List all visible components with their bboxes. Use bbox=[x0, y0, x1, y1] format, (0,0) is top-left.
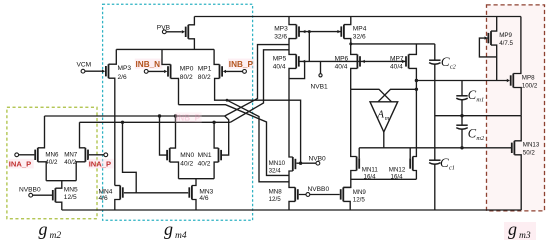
label MN7 40/2 bbox=[64, 152, 78, 166]
svg-text:40/2: 40/2 bbox=[45, 159, 58, 166]
wire MP4 source up bbox=[344, 17, 351, 25]
wire MN9 source to ground bbox=[343, 201, 350, 210]
junction MP1 drain branch bbox=[226, 99, 229, 102]
wire MP6 source up bbox=[351, 44, 358, 55]
svg-text:MN0: MN0 bbox=[180, 152, 194, 159]
wire Cm1 top stem bbox=[461, 81, 463, 96]
svg-text:NVB0: NVB0 bbox=[309, 155, 327, 162]
wire MP3b-MP4 gate wire bbox=[299, 31, 342, 33]
label MN1 40/2 bbox=[198, 152, 212, 167]
svg-text:g: g bbox=[508, 219, 517, 239]
label MP6 40/4 bbox=[335, 55, 349, 70]
svg-text:MN13: MN13 bbox=[523, 141, 540, 148]
svg-text:C: C bbox=[440, 155, 449, 170]
wire Cm2 top stem bbox=[461, 116, 463, 126]
junction nodeB on MP7 column bbox=[415, 88, 418, 91]
junction MN0 gate on H2 bbox=[158, 114, 161, 117]
wire H1 (MP0 drain) to crossing bbox=[179, 105, 290, 176]
wire MP8 drain to output bbox=[513, 88, 521, 116]
svg-text:INB_P: INB_P bbox=[176, 114, 201, 123]
transistor MN11 16/4 bbox=[357, 157, 360, 171]
label gm3 bbox=[504, 219, 536, 241]
wire MP5 drain diode dogleg bbox=[289, 61, 305, 78]
svg-text:MN8: MN8 bbox=[269, 188, 283, 195]
label INB_P ghost bbox=[175, 112, 202, 122]
svg-text:m2: m2 bbox=[50, 231, 62, 241]
transistor MP5 40/4 bbox=[296, 54, 305, 68]
svg-text:MP9: MP9 bbox=[499, 32, 512, 39]
gm4 stage boundary (cyan dashed box) bbox=[103, 4, 253, 220]
terminal PVB bbox=[162, 30, 166, 34]
transistor MP1 80/2 bbox=[220, 64, 227, 78]
label MN9 12/5 bbox=[353, 189, 367, 204]
transistor MN5 12/5 bbox=[53, 188, 56, 202]
wire H3 bus (MN7 drain) bbox=[80, 121, 231, 123]
wire MN13 drain up bbox=[514, 116, 521, 141]
label gm4 bbox=[164, 219, 187, 241]
wire INA_P right gate lead bbox=[89, 154, 104, 156]
label MP7 40/4 bbox=[390, 55, 404, 70]
wire nodeA bus bbox=[351, 89, 392, 102]
transistor MN3 4/6 bbox=[189, 186, 192, 200]
junction output node Cm bbox=[460, 114, 463, 117]
svg-text:m1: m1 bbox=[476, 97, 484, 104]
label MP0 80/2 bbox=[180, 65, 194, 81]
wire INB_P gate lead bbox=[226, 70, 243, 72]
wire MN12 gate riser bbox=[409, 148, 411, 159]
wire nodeB bus bbox=[378, 89, 416, 102]
wire MN5 drain riser bbox=[55, 181, 61, 189]
svg-text:INA_P: INA_P bbox=[9, 159, 31, 168]
svg-text:12/5: 12/5 bbox=[64, 194, 77, 201]
transistor MN8 12/5 bbox=[295, 187, 298, 201]
gm3 stage boundary (red dashed box) bbox=[487, 5, 545, 211]
label MN0 40/2 bbox=[180, 152, 194, 167]
junction MP3-MP4 gate drop bbox=[308, 30, 311, 33]
svg-text:INA_P: INA_P bbox=[89, 159, 111, 168]
svg-text:4/6: 4/6 bbox=[99, 195, 108, 202]
label INA_P right bbox=[88, 159, 114, 169]
wire MN11 gate riser bbox=[358, 148, 360, 159]
wire MP0 drain down bbox=[171, 78, 179, 104]
wire MP3b source up bbox=[289, 17, 296, 25]
wire MP1 source wrap bbox=[214, 49, 219, 64]
svg-text:4/7.5: 4/7.5 bbox=[499, 40, 513, 47]
wire MN3 source bbox=[192, 200, 196, 211]
wire Cm2 bottom stem bbox=[461, 128, 463, 147]
transistor MP6 40/4 bbox=[357, 54, 364, 68]
label MP3 2/6 bbox=[118, 65, 132, 81]
wire MP5 drain column to MN10 drain bbox=[289, 68, 296, 157]
wire MN11 source bbox=[343, 171, 356, 188]
svg-text:12/5: 12/5 bbox=[269, 196, 282, 203]
wire H2 bus (MN6 drain) bbox=[45, 115, 225, 117]
wire MN6 drain riser to H2 bbox=[38, 116, 45, 148]
label PVB bbox=[157, 24, 171, 31]
wire MN8 source to ground bbox=[289, 201, 295, 210]
terminal NVBB0 mid bbox=[306, 193, 310, 197]
svg-text:PVB: PVB bbox=[157, 24, 171, 31]
wire Am output bus bbox=[359, 147, 511, 149]
label MN6 40/2 bbox=[45, 152, 59, 166]
wire MN10 gate lead bbox=[296, 162, 316, 164]
svg-text:MN7: MN7 bbox=[64, 152, 78, 159]
wire MN12 source bbox=[413, 171, 417, 180]
wire output node bbox=[435, 115, 521, 117]
transistor MP4 32/6 bbox=[337, 25, 344, 39]
svg-text:4/6: 4/6 bbox=[199, 195, 208, 202]
wire MN1 source bbox=[214, 162, 218, 179]
wire MP7 drain column bbox=[409, 68, 417, 156]
wire MN11 drain column bbox=[351, 89, 357, 156]
transistor PVB tail PMOS bbox=[182, 25, 189, 39]
wire first-stage node to MP8 gate bbox=[416, 80, 507, 82]
svg-text:MN12: MN12 bbox=[389, 167, 406, 174]
svg-text:NVBB0: NVBB0 bbox=[19, 186, 41, 193]
wire MN0 source bbox=[170, 162, 179, 179]
label NVBB0 gm2 bbox=[19, 186, 41, 193]
svg-text:50/2: 50/2 bbox=[523, 149, 536, 156]
label MP8 100/2 bbox=[522, 75, 538, 90]
svg-text:A: A bbox=[377, 110, 385, 121]
capacitor Cc2 bbox=[429, 60, 440, 64]
op-amp Am bbox=[370, 102, 398, 132]
wire INB_N gate lead bbox=[148, 70, 164, 72]
transistor MP3 2/6 bbox=[102, 64, 109, 78]
label Cm1 bbox=[468, 88, 484, 104]
label MP5 40/4 bbox=[273, 55, 287, 70]
wire MN6/MN7 source bus bbox=[46, 180, 76, 182]
wire PVB drain to source rail bbox=[188, 39, 194, 50]
transistor MN6 40/2 bbox=[35, 148, 38, 162]
terminal INB_P bbox=[243, 70, 247, 74]
wire MN9 drain rail bbox=[351, 178, 417, 180]
wire Cc2-Cc1 column bbox=[434, 63, 436, 160]
svg-text:m4: m4 bbox=[175, 231, 187, 241]
junction MP4 drain / MP6 source bbox=[349, 42, 352, 45]
wire MN7 drain wrap to H3 bbox=[80, 122, 86, 148]
label MN10 32/4 bbox=[269, 160, 286, 175]
svg-text:MN1: MN1 bbox=[198, 152, 212, 159]
svg-text:VCM: VCM bbox=[77, 61, 92, 68]
wire MN1 drain riser bbox=[214, 122, 218, 148]
transistor MN12 16/4 bbox=[410, 157, 413, 171]
wire Cc1 bottom stem bbox=[434, 163, 436, 210]
svg-text:MN10: MN10 bbox=[269, 160, 286, 167]
wire Cc2 top stem bbox=[434, 44, 436, 60]
wire MP9 gate-drain loop bbox=[479, 38, 496, 57]
label INB_P bbox=[228, 59, 255, 69]
svg-text:12/5: 12/5 bbox=[353, 197, 366, 204]
transistor MN9 12/5 bbox=[341, 187, 344, 201]
svg-text:40/2: 40/2 bbox=[64, 159, 77, 166]
wire MP0/MP1 source rail bbox=[116, 48, 214, 50]
wire VCM gate lead bbox=[85, 70, 102, 72]
gm2 stage boundary (green dashed box) bbox=[7, 107, 97, 218]
svg-text:MN6: MN6 bbox=[45, 152, 59, 159]
wire MN0/MN1 source bus bbox=[179, 178, 215, 180]
svg-text:32/4: 32/4 bbox=[269, 168, 282, 175]
svg-text:C: C bbox=[441, 54, 450, 69]
svg-text:MP8: MP8 bbox=[522, 75, 535, 82]
svg-text:MP1: MP1 bbox=[198, 65, 212, 72]
label gm2 bbox=[39, 219, 62, 241]
svg-text:40/2: 40/2 bbox=[198, 160, 211, 167]
junction MN10 gate feed bbox=[299, 162, 302, 165]
svg-text:32/6: 32/6 bbox=[353, 34, 366, 41]
wire MP9 drain down bbox=[491, 45, 497, 80]
wire H3 crossing riser bbox=[230, 50, 289, 123]
svg-text:NVBB0: NVBB0 bbox=[308, 186, 330, 193]
label MP9 4/7.5 bbox=[499, 32, 513, 47]
svg-text:80/2: 80/2 bbox=[198, 74, 211, 81]
transistor MP8 100/2 bbox=[507, 74, 514, 88]
label MP4 32/6 bbox=[353, 26, 367, 41]
svg-text:MP3: MP3 bbox=[118, 65, 132, 72]
label NVBB0 mid bbox=[308, 186, 330, 193]
junction gate jog on H3 bbox=[121, 121, 124, 124]
svg-text:MP5: MP5 bbox=[273, 55, 287, 62]
wire NVB1 stub bbox=[320, 61, 322, 73]
label MN12 16/4 bbox=[389, 167, 406, 181]
wire MN6 source bbox=[38, 162, 46, 181]
svg-text:MP6: MP6 bbox=[335, 55, 349, 62]
junction Am bus Cm2 bbox=[460, 146, 463, 149]
wire MP9 source up bbox=[491, 17, 497, 32]
wire MN3 drain riser bbox=[192, 179, 196, 186]
label MN5 12/5 bbox=[64, 186, 78, 201]
svg-text:m2: m2 bbox=[476, 135, 485, 142]
transistor MN7 40/2 bbox=[85, 148, 88, 162]
label MN11 16/4 bbox=[362, 167, 379, 181]
terminal NVB1 bbox=[319, 74, 322, 77]
svg-text:MP3: MP3 bbox=[274, 26, 288, 33]
wire MN9 drain riser bbox=[343, 186, 351, 188]
label MN3 4/6 bbox=[199, 189, 213, 202]
label MN8 12/5 bbox=[269, 188, 283, 203]
junction node81 on MP7 column bbox=[415, 79, 418, 82]
wire PVB source to rail bbox=[188, 17, 194, 25]
transistor MP3 32/6 bbox=[296, 25, 305, 39]
terminal NVB0 bbox=[316, 161, 320, 165]
wire Am output riser bbox=[383, 132, 385, 148]
svg-text:INB_P: INB_P bbox=[229, 60, 254, 69]
label Cc1 bbox=[440, 155, 455, 172]
label INA_P left bbox=[8, 159, 34, 169]
svg-text:c2: c2 bbox=[450, 63, 457, 70]
transistor MN10 32/4 bbox=[293, 157, 296, 171]
wire MP0 source wrap bbox=[162, 49, 171, 64]
capacitor Cm1 bbox=[456, 96, 467, 100]
label MN13 50/2 bbox=[523, 141, 540, 156]
wire gate jog to H3 bbox=[123, 122, 137, 193]
svg-text:80/2: 80/2 bbox=[180, 74, 193, 81]
svg-text:40/2: 40/2 bbox=[180, 160, 193, 167]
svg-text:m: m bbox=[385, 115, 390, 122]
label Cc2 bbox=[441, 54, 457, 71]
terminal INB_N bbox=[144, 70, 148, 74]
svg-text:MP4: MP4 bbox=[353, 26, 367, 33]
capacitor Cm2 bbox=[456, 125, 467, 129]
svg-text:MP0: MP0 bbox=[180, 65, 194, 72]
transistor MP7 40/4 bbox=[402, 54, 409, 68]
wire MP3 source up bbox=[109, 49, 117, 64]
wire MN13 source to ground bbox=[514, 155, 521, 210]
svg-text:NVB1: NVB1 bbox=[311, 84, 329, 91]
wire INA_P left gate lead bbox=[19, 154, 35, 156]
wire PVB gate lead bbox=[166, 31, 182, 33]
transistor MN4 4/6 bbox=[120, 186, 123, 200]
wire MP7 source up bbox=[409, 44, 417, 55]
label NVB0 bbox=[309, 155, 327, 162]
wire MP1 drain crossing branch bbox=[227, 100, 289, 182]
wire Cm1 bottom stem bbox=[461, 99, 463, 116]
wire MP3b drain to MP5 source bbox=[289, 39, 296, 55]
svg-text:c1: c1 bbox=[449, 164, 455, 171]
svg-text:MN11: MN11 bbox=[362, 167, 379, 174]
label Cm2 bbox=[468, 127, 485, 143]
wire MN7 source bbox=[76, 162, 85, 181]
svg-text:m3: m3 bbox=[519, 231, 531, 241]
terminal NVBB0 gm2 bbox=[29, 193, 33, 197]
wire MN4 source bbox=[115, 200, 120, 211]
transistor MN0 40/2 bbox=[167, 148, 170, 162]
wire gate drop to cascode gate wire bbox=[308, 32, 310, 62]
svg-text:40/4: 40/4 bbox=[273, 63, 286, 70]
wire MP4 drain bus bbox=[344, 39, 435, 44]
svg-text:32/6: 32/6 bbox=[274, 34, 287, 41]
wire MN10 source to MN8 drain bbox=[289, 171, 295, 187]
transistor MN1 40/2 bbox=[219, 148, 222, 162]
label MP1 80/2 bbox=[198, 65, 212, 81]
label INB_N bbox=[135, 59, 163, 69]
svg-text:MN9: MN9 bbox=[353, 189, 367, 196]
wire MN1 gate hook from H2 bbox=[221, 116, 229, 155]
terminal INA_P right bbox=[104, 153, 108, 157]
junction MN1 drain on H3 bbox=[212, 121, 215, 124]
wire MN8-MN9 gate wire bbox=[299, 194, 340, 196]
svg-text:40/4: 40/4 bbox=[390, 63, 403, 70]
wire MN5 source to ground bbox=[55, 202, 61, 210]
svg-text:MP7: MP7 bbox=[390, 55, 404, 62]
wire cascode gate bus bbox=[299, 60, 407, 62]
svg-text:g: g bbox=[164, 219, 173, 239]
svg-text:g: g bbox=[39, 219, 48, 239]
wire MN0 drain riser bbox=[170, 116, 176, 148]
transistor MP0 80/2 bbox=[164, 64, 171, 78]
wire H2 crossing riser bbox=[225, 45, 289, 116]
svg-text:40/4: 40/4 bbox=[335, 63, 348, 70]
svg-text:MN5: MN5 bbox=[64, 186, 78, 193]
wire MN0 gate riser bbox=[160, 116, 168, 155]
junction MN0 drain on H2 bbox=[174, 114, 177, 117]
label MP3 32/6 bbox=[274, 26, 288, 41]
wire MP3 drain / MN4 drain column bbox=[109, 78, 115, 185]
label NVB1 bbox=[311, 84, 329, 91]
wire MN4 drain bbox=[115, 185, 120, 187]
terminal INA_P left bbox=[15, 153, 19, 157]
wire ground rail bbox=[62, 209, 521, 211]
wire MP1 drain to MN10 gate line bbox=[215, 78, 301, 163]
transistor MP9 4/7.5 bbox=[485, 31, 492, 45]
svg-text:2/6: 2/6 bbox=[118, 74, 127, 81]
wire MN4-MN3 gate wire bbox=[124, 192, 188, 194]
svg-text:INB_N: INB_N bbox=[136, 60, 161, 69]
transistor MN13 50/2 bbox=[512, 141, 515, 155]
wire top supply rail bbox=[194, 16, 521, 18]
wire MP8 source from rail bbox=[513, 17, 521, 74]
terminal VCM bbox=[81, 69, 85, 73]
wire MP6 drain down bbox=[351, 68, 358, 89]
label MN4 4/6 bbox=[99, 189, 113, 202]
svg-text:100/2: 100/2 bbox=[522, 83, 538, 90]
capacitor Cc1 bbox=[429, 160, 440, 164]
label VCM bbox=[77, 61, 92, 68]
wire NVBB0 gate lead bbox=[33, 194, 52, 196]
